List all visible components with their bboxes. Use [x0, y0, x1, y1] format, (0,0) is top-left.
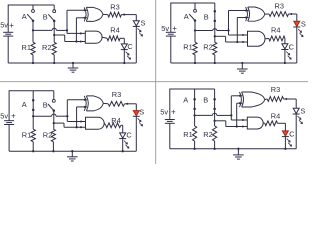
quadrant 3 (A=1 B=0): junction R1 at ground rail	[32, 150, 34, 152]
quadrant 4 (A=1 B=1): wire R3 to LED S	[284, 99, 297, 108]
divider between top and bottom panels	[0, 81, 308, 83]
quadrant 1 (A=0 B=0): wire ground rail	[8, 62, 136, 64]
quadrant 3 (A=1 B=0): node B junction	[53, 122, 55, 124]
quadrant 1 (A=0 B=0): junction after R3	[123, 14, 125, 16]
quadrant 2 (A=0 B=1): wire R2 to ground rail	[214, 55, 216, 63]
quadrant 1 (A=0 B=0): junction LED C at ground rail	[123, 62, 125, 64]
quadrant 4 (A=1 B=1): node B junction	[213, 120, 215, 122]
quadrant 3 (A=1 B=0): wire AND output to R4	[104, 123, 106, 125]
quadrant 3 (A=1 B=0): wire node A to AND input 1	[67, 116, 85, 121]
quadrant 2 (A=0 B=1): wire node B to AND input 2	[215, 36, 248, 42]
svg-text:+: +	[172, 24, 177, 33]
quadrant 1 (A=0 B=0): AND gate U2	[85, 31, 102, 43]
svg-text:R2: R2	[43, 131, 52, 140]
quadrant 3 (A=1 B=0): junction R2 at ground rail	[52, 150, 54, 152]
quadrant 1 (A=0 B=0): wire top rail from battery to switches	[8, 5, 54, 32]
quadrant 4 (A=1 B=1): wire ground rail	[170, 148, 296, 150]
quadrant 4 (A=1 B=1): wire LED C to ground rail	[284, 137, 286, 149]
quadrant 2 (A=0 B=1): wire node A to AND input 1	[229, 31, 248, 36]
quadrant 1 (A=0 B=0): resistor R2	[52, 42, 56, 55]
quadrant 3 (A=1 B=0): AND input pin dots	[80, 120, 82, 128]
quadrant 2 (A=0 B=1): junction ground symbol at rail	[241, 62, 243, 64]
quadrant 4 (A=1 B=1): wire R4 to LED C	[278, 123, 286, 131]
svg-text:S: S	[300, 106, 305, 115]
quadrant 4 (A=1 B=1): LED C light arrows	[287, 139, 292, 147]
quadrant 2 (A=0 B=1): wire LED S to ground rail	[296, 27, 298, 63]
quadrant 4 (A=1 B=1): wire node A to R1	[194, 115, 196, 126]
quadrant 4 (A=1 B=1): LED S light arrows	[298, 116, 303, 124]
quadrant 2 (A=0 B=1): node A junction	[194, 29, 196, 31]
svg-text:B: B	[204, 13, 209, 22]
svg-text:R1: R1	[22, 131, 31, 140]
quadrant 4 (A=1 B=1): ground	[233, 149, 244, 159]
quadrant 2 (A=0 B=1): resistor R4	[269, 36, 285, 41]
quadrant 2 (A=0 B=1): wire LED C to ground rail	[284, 50, 286, 64]
quadrant 4 (A=1 B=1): junction after R3	[285, 98, 287, 100]
quadrant 1 (A=0 B=0): wire node A to R1	[32, 30, 34, 42]
quadrant 3 (A=1 B=0): battery 5v	[4, 121, 14, 125]
quadrant 3 (A=1 B=0): junction after R3	[126, 103, 128, 105]
quadrant 3 (A=1 B=0): wire R2 to ground rail	[52, 142, 54, 151]
svg-text:C: C	[127, 42, 133, 51]
svg-text:C: C	[289, 129, 295, 138]
quadrant 1 (A=0 B=0): LED C	[121, 44, 128, 50]
quadrant 4 (A=1 B=1): junction R1 at ground rail	[193, 148, 195, 150]
quadrant 2 (A=0 B=1): wire node B to XOR input 2	[237, 18, 248, 43]
quadrant 3 (A=1 B=0): XOR gate U1	[84, 96, 103, 111]
quadrant 3 (A=1 B=0): wire R4 to LED C	[121, 125, 123, 133]
quadrant 4 (A=1 B=1): wire node A to AND input 1	[231, 115, 247, 120]
quadrant 1 (A=0 B=0): resistor R1	[31, 42, 35, 55]
svg-text:5v: 5v	[161, 24, 169, 33]
quadrant 1 (A=0 B=0): wire R1 to ground rail	[32, 55, 34, 63]
quadrant 2 (A=0 B=1): LED S	[293, 21, 300, 27]
quadrant 4 (A=1 B=1): LED S	[293, 108, 300, 114]
svg-text:B: B	[43, 101, 48, 110]
quadrant 1 (A=0 B=0): wire switch A to node A	[32, 21, 34, 31]
quadrant 2 (A=0 B=1): wire node A to XOR input 1 (hops over switch B wire)	[195, 11, 248, 31]
quadrant 2 (A=0 B=1): wire R4 to LED C	[284, 39, 286, 44]
quadrant 3 (A=1 B=0): LED C	[119, 133, 126, 139]
quadrant 2 (A=0 B=1): junction after R3	[290, 13, 292, 15]
quadrant 2 (A=0 B=1): junction LED C at ground rail	[284, 62, 286, 64]
quadrant 2 (A=0 B=1): ground	[237, 63, 248, 73]
svg-text:+: +	[9, 21, 14, 30]
svg-text:R1: R1	[183, 130, 192, 139]
quadrant 2 (A=0 B=1): junction riser to XOR input 2	[236, 41, 238, 43]
svg-text:R4: R4	[111, 116, 120, 125]
svg-text:C: C	[289, 42, 295, 51]
quadrant 1 (A=0 B=0): wire switch B to node B	[53, 21, 55, 35]
svg-text:+: +	[171, 108, 176, 117]
quadrant 4 (A=1 B=1): node A junction	[193, 114, 195, 116]
svg-text:R4: R4	[271, 111, 280, 120]
quadrant 2 (A=0 B=1): junction R1 at ground rail	[194, 62, 196, 64]
svg-text:S: S	[139, 108, 144, 117]
svg-text:R3: R3	[112, 90, 121, 99]
quadrant 1 (A=0 B=0): junction ground symbol at rail	[72, 62, 74, 64]
quadrant 3 (A=1 B=0): switch B (open)	[48, 91, 55, 112]
svg-text:R1: R1	[22, 43, 31, 52]
svg-text:R4: R4	[110, 25, 119, 34]
quadrant 3 (A=1 B=0): XOR input pin dots	[84, 99, 86, 108]
svg-text:R2: R2	[42, 43, 51, 52]
svg-text:R3: R3	[271, 85, 280, 94]
quadrant 1 (A=0 B=0): wire battery negative to ground rail	[7, 36, 9, 63]
quadrant 2 (A=0 B=1): resistor R2	[213, 42, 217, 55]
quadrant 3 (A=1 B=0): junction ground symbol at rail	[71, 150, 73, 152]
quadrant 3 (A=1 B=0): switch A (closed)	[32, 91, 35, 116]
quadrant 2 (A=0 B=1): wire top rail from battery to switches	[171, 3, 215, 32]
quadrant 4 (A=1 B=1): wire LED S to ground rail	[295, 114, 297, 149]
quadrant 4 (A=1 B=1): junction LED C at ground rail	[284, 148, 286, 150]
quadrant 1 (A=0 B=0): node B junction	[53, 34, 55, 36]
quadrant 4 (A=1 B=1): resistor R3	[267, 97, 283, 102]
quadrant 2 (A=0 B=1): junction riser to AND input 1	[227, 29, 229, 31]
quadrant 2 (A=0 B=1): wire R3 to LED S	[289, 14, 297, 21]
svg-text:5v: 5v	[0, 21, 8, 30]
quadrant 2 (A=0 B=1): switch A (open)	[189, 3, 196, 22]
svg-text:5v: 5v	[0, 112, 8, 121]
svg-text:A: A	[183, 96, 188, 105]
quadrant 3 (A=1 B=0): junction riser to XOR input 2	[75, 126, 77, 128]
quadrant 3 (A=1 B=0): wire LED C to ground rail	[122, 139, 124, 152]
quadrant 2 (A=0 B=1): battery 5v	[166, 32, 176, 36]
quadrant 1 (A=0 B=0): LED S light arrows	[138, 28, 143, 36]
quadrant 3 (A=1 B=0): wire LED S to ground rail	[135, 116, 137, 151]
quadrant 3 (A=1 B=0): junction LED C at ground rail	[122, 150, 124, 152]
quadrant 1 (A=0 B=0): AND input pin dots	[80, 32, 82, 42]
quadrant 3 (A=1 B=0): AND gate U2	[86, 117, 105, 129]
quadrant 1 (A=0 B=0): resistor R4	[107, 36, 120, 41]
quadrant 1 (A=0 B=0): wire node A to XOR input 1 (hops over switch B wire)	[33, 10, 87, 30]
quadrant 1 (A=0 B=0): wire node A to AND input 1	[67, 30, 85, 33]
quadrant 2 (A=0 B=1): switch B (closed)	[214, 3, 217, 36]
quadrant 2 (A=0 B=1): XOR gate U1	[246, 7, 265, 21]
quadrant 4 (A=1 B=1): resistor R4	[265, 121, 278, 126]
quadrant 3 (A=1 B=0): wire node B to XOR input 2	[77, 107, 88, 127]
quadrant 1 (A=0 B=0): wire R4 to LED C	[120, 38, 124, 44]
quadrant 4 (A=1 B=1): switch A (closed)	[193, 89, 196, 115]
divider between left and right panels	[155, 0, 157, 164]
quadrant 4 (A=1 B=1): wire R2 to ground rail	[214, 141, 216, 149]
quadrant 2 (A=0 B=1): LED C light arrows	[286, 52, 291, 60]
quadrant 3 (A=1 B=0): junction riser to AND input 1	[66, 115, 68, 117]
quadrant 1 (A=0 B=0): switch B (open)	[48, 5, 55, 22]
svg-text:B: B	[203, 96, 208, 105]
quadrant 4 (A=1 B=1): wire node B to XOR input 2	[237, 103, 243, 126]
quadrant 2 (A=0 B=1): XOR input pin dots	[245, 9, 247, 18]
quadrant 4 (A=1 B=1): battery 5v	[165, 120, 175, 124]
quadrant 3 (A=1 B=0): wire R3 to LED S	[125, 104, 137, 111]
quadrant 4 (A=1 B=1): wire R1 to ground rail	[194, 141, 196, 149]
quadrant 3 (A=1 B=0): wire node A to R1	[32, 116, 34, 129]
quadrant 3 (A=1 B=0): LED S	[133, 111, 140, 117]
quadrant 2 (A=0 B=1): AND gate U2	[248, 31, 266, 46]
quadrant 2 (A=0 B=1): wire XOR output to R3	[265, 13, 269, 15]
quadrant 1 (A=0 B=0): junction R1 at ground rail	[32, 62, 34, 64]
quadrant 2 (A=0 B=1): LED S light arrows	[298, 29, 303, 37]
svg-text:R3: R3	[110, 2, 119, 11]
quadrant 3 (A=1 B=0): wire node A to XOR input 1 (hops over switch B wire)	[33, 100, 87, 116]
quadrant 3 (A=1 B=0): resistor R1	[31, 129, 35, 142]
quadrant 1 (A=0 B=0): wire node B to R2	[53, 35, 55, 42]
quadrant 3 (A=1 B=0): wire node B to AND input 2	[54, 123, 86, 127]
quadrant 3 (A=1 B=0): wire node B to R2	[53, 123, 55, 129]
quadrant 2 (A=0 B=1): junction R2 at ground rail	[214, 62, 216, 64]
svg-text:+: +	[11, 111, 16, 120]
quadrant 2 (A=0 B=1): node B junction	[214, 35, 216, 37]
svg-text:R1: R1	[183, 43, 192, 52]
quadrant 2 (A=0 B=1): resistor R3	[269, 12, 289, 17]
quadrant 1 (A=0 B=0): wire node B to AND input 2	[54, 35, 85, 42]
svg-text:5v: 5v	[160, 108, 168, 117]
quadrant 1 (A=0 B=0): node A junction	[32, 29, 34, 31]
quadrant 3 (A=1 B=0): resistor R4	[106, 123, 121, 128]
quadrant 1 (A=0 B=0): resistor R3	[108, 12, 122, 17]
quadrant 1 (A=0 B=0): LED C light arrows	[126, 52, 131, 60]
quadrant 4 (A=1 B=1): wire battery negative to ground rail	[169, 123, 171, 149]
quadrant 1 (A=0 B=0): junction R2 at ground rail	[53, 62, 55, 64]
svg-text:R2: R2	[203, 43, 212, 52]
quadrant 4 (A=1 B=1): XOR input pin dots	[239, 95, 241, 104]
quadrant 4 (A=1 B=1): junction R2 at ground rail	[213, 148, 215, 150]
quadrant 1 (A=0 B=0): junction riser to AND input 1	[66, 29, 68, 31]
quadrant 2 (A=0 B=1): AND input pin dots	[242, 34, 244, 43]
quadrant 1 (A=0 B=0): battery 5v	[3, 32, 13, 36]
quadrant 2 (A=0 B=1): LED C	[281, 44, 288, 50]
quadrant 2 (A=0 B=1): resistor R1	[193, 42, 197, 55]
quadrant 4 (A=1 B=1): switch B (closed)	[213, 89, 216, 121]
quadrant 2 (A=0 B=1): wire switch A to node A	[194, 21, 196, 31]
quadrant 2 (A=0 B=1): wire AND output to R4	[265, 38, 269, 40]
quadrant 1 (A=0 B=0): wire AND output to R4	[102, 37, 107, 38]
quadrant 1 (A=0 B=0): wire node B to XOR input 2	[76, 18, 87, 42]
quadrant 2 (A=0 B=1): wire R1 to ground rail	[194, 55, 196, 63]
quadrant 4 (A=1 B=1): wire AND output to R4	[263, 122, 265, 124]
quadrant 3 (A=1 B=0): node A junction	[32, 115, 34, 117]
svg-text:A: A	[22, 100, 27, 109]
quadrant 3 (A=1 B=0): ground	[67, 151, 78, 161]
quadrant 2 (A=0 B=1): wire node A to R1	[194, 31, 196, 43]
quadrant 1 (A=0 B=0): ground	[68, 63, 79, 72]
quadrant 4 (A=1 B=1): junction riser to AND input 1	[230, 114, 232, 116]
quadrant 4 (A=1 B=1): wire top rail from battery to switches	[170, 89, 215, 120]
quadrant 3 (A=1 B=0): resistor R3	[108, 101, 124, 106]
quadrant 4 (A=1 B=1): wire XOR output to R3	[265, 98, 267, 101]
quadrant 4 (A=1 B=1): AND gate U2	[247, 117, 263, 129]
svg-text:R2: R2	[203, 130, 212, 139]
quadrant 4 (A=1 B=1): XOR gate U1	[240, 92, 265, 107]
svg-text:S: S	[141, 19, 146, 28]
quadrant 1 (A=0 B=0): wire LED C to ground rail	[123, 50, 125, 63]
quadrant 4 (A=1 B=1): LED C	[282, 131, 289, 137]
quadrant 3 (A=1 B=0): wire battery negative to ground rail	[8, 125, 10, 152]
quadrant 3 (A=1 B=0): wire switch B to node B	[53, 111, 55, 124]
quadrant 4 (A=1 B=1): junction riser to XOR input 2	[236, 125, 238, 127]
quadrant 4 (A=1 B=1): resistor R1	[193, 126, 197, 141]
quadrant 3 (A=1 B=0): wire XOR output to R3	[103, 102, 108, 104]
quadrant 4 (A=1 B=1): junction ground symbol at rail	[237, 148, 239, 150]
quadrant 1 (A=0 B=0): wire LED S to ground rail	[135, 26, 137, 63]
quadrant 1 (A=0 B=0): XOR input pin dots	[84, 9, 86, 19]
quadrant 4 (A=1 B=1): wire node B to AND input 2	[215, 121, 248, 127]
svg-text:B: B	[43, 12, 48, 21]
quadrant 1 (A=0 B=0): LED S	[133, 21, 140, 27]
quadrant 1 (A=0 B=0): XOR gate U1	[84, 7, 103, 21]
quadrant 4 (A=1 B=1): AND input pin dots	[242, 119, 244, 128]
quadrant 1 (A=0 B=0): wire R3 to LED S	[121, 15, 136, 21]
svg-text:R3: R3	[275, 2, 284, 11]
quadrant 2 (A=0 B=1): wire node B to R2	[214, 36, 216, 42]
quadrant 1 (A=0 B=0): switch A (open)	[27, 5, 34, 22]
quadrant 3 (A=1 B=0): wire ground rail	[9, 150, 136, 152]
quadrant 3 (A=1 B=0): LED C light arrows	[124, 141, 129, 149]
svg-text:A: A	[22, 12, 27, 21]
svg-text:S: S	[301, 20, 306, 29]
quadrant 3 (A=1 B=0): wire top rail from battery to switches	[9, 91, 54, 121]
quadrant 4 (A=1 B=1): resistor R2	[213, 126, 217, 141]
svg-text:C: C	[126, 131, 132, 140]
svg-text:R4: R4	[271, 25, 280, 34]
quadrant 1 (A=0 B=0): junction riser to XOR input 2	[75, 40, 77, 42]
quadrant 4 (A=1 B=1): wire node B to R2	[214, 121, 216, 126]
quadrant 3 (A=1 B=0): wire R1 to ground rail	[32, 142, 34, 151]
quadrant 3 (A=1 B=0): LED S light arrows	[138, 118, 143, 126]
quadrant 1 (A=0 B=0): wire R2 to ground rail	[53, 55, 55, 63]
quadrant 1 (A=0 B=0): wire XOR output to R3	[103, 13, 108, 15]
quadrant 4 (A=1 B=1): wire node A to XOR input 1 (hops over switch B wire)	[195, 96, 243, 116]
quadrant 3 (A=1 B=0): resistor R2	[51, 129, 55, 142]
svg-text:A: A	[184, 12, 189, 21]
quadrant 2 (A=0 B=1): wire battery negative to ground rail	[170, 36, 172, 63]
quadrant 2 (A=0 B=1): wire ground rail	[171, 62, 297, 64]
